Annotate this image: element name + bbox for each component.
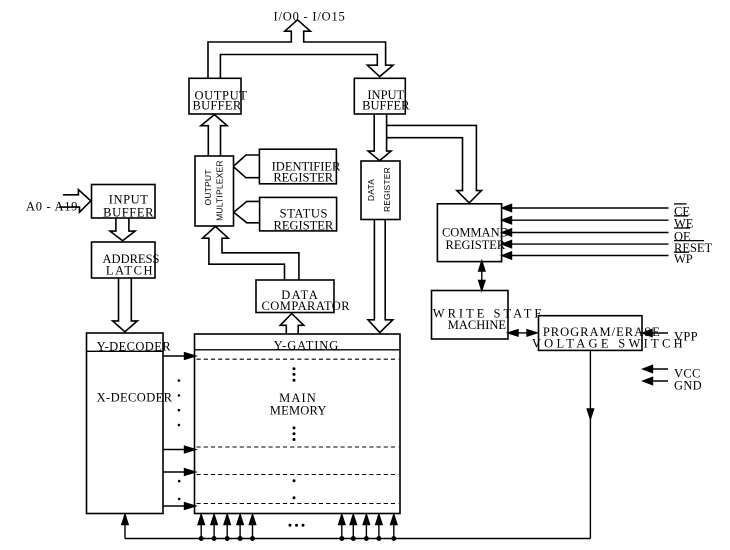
wire PROGRAM/ERASE switch down to bottom bus with arrow [587,350,593,538]
svg-text:Y-DECODER: Y-DECODER [97,339,172,353]
svg-text:I/O0 - I/O15: I/O0 - I/O15 [274,10,346,24]
wire hollow down arrow DATA REGISTER to Y-GATING [368,220,393,333]
svg-text:GND: GND [674,379,702,393]
wire hollow up arrow Y-GATING to DATA COMPARATOR [280,314,304,334]
svg-text:Y-GATING: Y-GATING [274,338,340,352]
block DATA COMPARATOR [256,280,350,313]
block WRITE STATE MACHINE [432,291,546,340]
wire I/O bus hollow channel with up arrow to I/O0-I/O15 and down arrow into INPUT BUFFER [208,20,393,79]
ellipsis dots between decoder and memory (upper) [178,379,181,426]
wire bottom bus line [125,538,590,540]
svg-text:X-DECODER: X-DECODER [97,390,173,404]
svg-text:REGISTER: REGISTER [382,167,392,212]
wire hollow down arrow ADDRESS LATCH to decoders [113,278,138,332]
svg-text:VOLTAGE SWITCH: VOLTAGE SWITCH [532,337,686,351]
svg-text:INPUT: INPUT [109,192,149,206]
svg-text:A0 - A19: A0 - A19 [26,200,78,214]
svg-text:BUFFER: BUFFER [362,98,410,112]
bit line arrows into memory bottom (left group) [198,515,256,541]
svg-text:VPP: VPP [674,330,698,344]
memory sector dashed row lines [197,359,399,503]
block COMMAND REGISTER [437,204,508,262]
svg-text:BUFFER: BUFFER [192,98,241,112]
svg-text:REGISTER: REGISTER [273,171,333,185]
svg-text:DATA: DATA [366,179,376,201]
svg-text:REGISTER: REGISTER [446,238,506,252]
block OUTPUT MULTIPLEXER [195,156,234,226]
wire A0-A19 open arrow into INPUT BUFFER [59,190,91,213]
block INPUT BUFFER (data) [354,78,410,114]
wire hollow left arrow IDENTIFIER REGISTER to OUTPUT MULTIPLEXER [233,155,259,178]
block DATA REGISTER [361,161,400,220]
memory ellipsis dots column lower [293,426,296,441]
block Y-GATING / MAIN MEMORY [195,334,401,514]
wire hollow down arrow INPUT BUFFER to DATA REGISTER [368,114,391,161]
block Y-DECODER / X-DECODER [87,333,173,514]
svg-text:COMPARATOR: COMPARATOR [262,299,351,313]
wire feedback up arrow into decoder bottom [122,515,128,539]
memory ellipsis dots column upper [293,367,296,382]
svg-text:OUTPUT: OUTPUT [203,169,213,205]
svg-text:MACHINE: MACHINE [448,318,507,332]
wire GND input arrow [643,377,668,384]
wire hollow path from DATA COMPARATOR up-left into OUTPUT MULTIPLEXER bottom [203,226,299,280]
command register input wires CE WE OE RESET WP [502,204,669,259]
svg-text:WP: WP [674,252,693,266]
block IDENTIFIER REGISTER [259,149,341,185]
memory single dots [293,479,296,499]
ellipsis dots between bit line groups [289,524,305,527]
wire VPP input arrow [643,329,669,336]
wire double arrow WRITE STATE MACHINE to PROGRAM/ERASE VOLTAGE SWITCH [508,330,537,336]
svg-text:MULTIPLEXER: MULTIPLEXER [215,160,225,221]
svg-text:LATCH: LATCH [106,263,154,277]
bit line arrows into memory bottom (right group) [339,515,397,541]
wire hollow left arrow STATUS REGISTER to OUTPUT MULTIPLEXER [234,201,260,222]
wire hollow up arrow from OUTPUT MULTIPLEXER into OUTPUT BUFFER [201,115,227,156]
svg-text:MEMORY: MEMORY [270,404,327,418]
wire VCC input arrow [643,365,668,372]
wire double arrow COMMAND REGISTER to WRITE STATE MACHINE [479,261,485,291]
word line arrows X-DECODER to memory [163,353,196,510]
block OUTPUT BUFFER [189,78,247,114]
svg-text:BUFFER: BUFFER [103,205,154,219]
block INPUT BUFFER (address) [92,185,156,220]
wire hollow branch INPUT BUFFER to COMMAND REGISTER with down arrow [387,125,482,202]
svg-text:REGISTER: REGISTER [274,219,334,233]
ellipsis dots between decoder and memory (lower) [178,480,181,500]
block STATUS REGISTER [260,197,337,232]
block PROGRAM/ERASE VOLTAGE SWITCH [532,316,686,351]
block ADDRESS LATCH [92,242,160,278]
wire hollow down arrow INPUT BUFFER(addr) to ADDRESS LATCH [110,218,135,241]
